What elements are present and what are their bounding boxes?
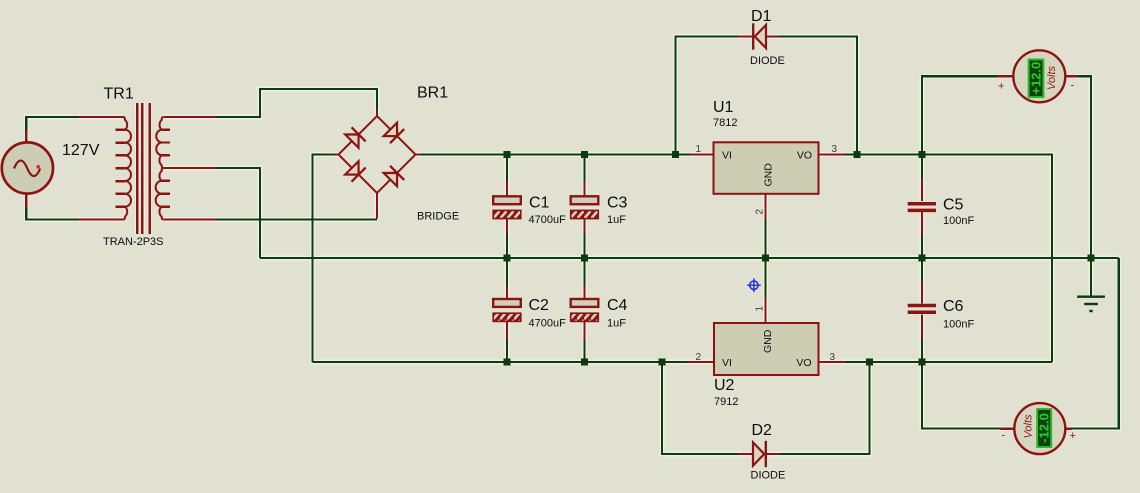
- svg-text:GND: GND: [762, 329, 774, 353]
- node junction D1 riser / U1 VI: [672, 151, 679, 158]
- svg-text:7912: 7912: [714, 396, 738, 408]
- node junction C3 top: [581, 151, 588, 158]
- wire top voltmeter plus riser: [922, 76, 997, 154]
- wire mid rail to U2 GND: [764, 258, 766, 298]
- wire U1 VO rail to x=1052: [845, 155, 1052, 363]
- origin marker (blue crosshair): [747, 278, 761, 292]
- wire ground stub: [1090, 258, 1092, 296]
- wire C2 branch: [506, 258, 508, 362]
- svg-text:7812: 7812: [713, 117, 737, 129]
- node junction C3 bottom: [581, 255, 588, 262]
- capacitor C5 100nF: [908, 179, 936, 235]
- svg-text:U1: U1: [713, 99, 734, 116]
- bridge rectifier BR1 diamond arms: [335, 110, 421, 219]
- svg-text:U2: U2: [714, 377, 735, 394]
- svg-text:4700uF: 4700uF: [529, 318, 567, 330]
- wire bridge left vertex down to negative input rail: [312, 155, 335, 363]
- wire mid rail corner down to bottom voltmeter plus: [1072, 258, 1119, 429]
- node junction ground / meter minus: [1088, 255, 1095, 262]
- wire secondary top to bridge top vertex: [216, 89, 377, 117]
- capacitor C3 1uF electrolytic: [571, 182, 599, 234]
- wire bottom voltmeter minus riser: [922, 362, 1001, 429]
- capacitor C1 4700uF electrolytic: [493, 182, 521, 234]
- capacitor C4 1uF electrolytic: [571, 286, 599, 340]
- node junction C5 bottom / C6 top: [919, 255, 926, 262]
- node junction C6 bottom / bottom meter minus: [919, 359, 926, 366]
- svg-text:Volts: Volts: [1023, 414, 1035, 439]
- svg-text:+12.0: +12.0: [1028, 62, 1043, 95]
- node junction D2 left / U2 VI: [659, 359, 666, 366]
- wire bridge right vertex to U1 VI (positive rail left): [421, 153, 690, 155]
- svg-text:1uF: 1uF: [607, 318, 626, 330]
- JUNCTIONS: [504, 151, 1095, 366]
- node junction C2 bottom: [504, 359, 511, 366]
- regulator U2 7912: [687, 298, 845, 375]
- svg-text:C1: C1: [529, 194, 550, 211]
- node junction C4 bottom: [581, 359, 588, 366]
- svg-text:C3: C3: [607, 194, 628, 211]
- wire C6 branch: [921, 258, 923, 362]
- node junction C1 bottom: [504, 255, 511, 262]
- svg-text:D2: D2: [752, 422, 773, 439]
- svg-text:BRIDGE: BRIDGE: [417, 211, 459, 223]
- svg-text:TRAN-2P3S: TRAN-2P3S: [103, 236, 164, 248]
- transformer TR1 secondary windings with center tap: [156, 117, 216, 220]
- node junction U1 VO / D1: [854, 151, 861, 158]
- svg-text:BR1: BR1: [417, 85, 448, 102]
- svg-text:Volts: Volts: [1046, 65, 1058, 90]
- capacitor C6 100nF: [908, 281, 936, 339]
- svg-text:100nF: 100nF: [943, 215, 974, 227]
- wire secondary center tap down to mid rail: [216, 168, 260, 258]
- wire C1 branch: [506, 155, 508, 259]
- bridge diode bottom-left (anode left vertex, cathode bottom vertex): [345, 161, 358, 174]
- svg-text:TR1: TR1: [104, 86, 134, 103]
- svg-text:DIODE: DIODE: [750, 55, 785, 67]
- svg-text:C4: C4: [607, 297, 628, 314]
- svg-text:C5: C5: [943, 197, 964, 214]
- wire secondary bottom to bridge bottom stub: [216, 218, 377, 220]
- wire U1 GND to mid rail: [764, 220, 766, 258]
- wire mid rail (0V): [260, 257, 1119, 259]
- wire D2 left riser and diode net: [662, 362, 740, 454]
- node junction C1 top: [504, 151, 511, 158]
- diode D1: [739, 23, 780, 49]
- bridge diode top-right (anode top vertex, cathode right vertex): [384, 123, 397, 136]
- svg-text:3: 3: [832, 144, 838, 155]
- wire AC source bottom to transformer primary bottom: [26, 207, 78, 220]
- AC source V1 127V: [2, 129, 53, 207]
- wire negative input rail to U2 VI: [312, 361, 687, 363]
- bridge diode top-left (anode left vertex, cathode top vertex): [345, 134, 358, 147]
- svg-text:C6: C6: [943, 298, 964, 315]
- svg-text:-12.0: -12.0: [1036, 413, 1051, 443]
- svg-text:127V: 127V: [62, 142, 100, 159]
- svg-text:4700uF: 4700uF: [529, 214, 567, 226]
- wire U2 VO rail to x=1052: [845, 361, 1052, 363]
- node junction D2 right / U2 VO: [866, 359, 873, 366]
- svg-text:2: 2: [695, 352, 701, 363]
- wire D2 right side riser to U2 output rail: [779, 362, 870, 454]
- wire AC source top to transformer primary top: [26, 117, 78, 129]
- svg-text:100nF: 100nF: [943, 319, 974, 331]
- diode D2: [739, 441, 780, 467]
- voltmeter bottom -12.0: [1001, 403, 1076, 454]
- svg-text:D1: D1: [751, 8, 772, 25]
- svg-text:VO: VO: [797, 150, 812, 162]
- bridge diode bottom-right (anode bottom vertex, cathode right vertex): [384, 173, 397, 186]
- wire top voltmeter minus riser to mid rail: [1078, 76, 1091, 258]
- svg-text:DIODE: DIODE: [751, 470, 786, 482]
- regulator U1 7812: [690, 142, 845, 220]
- wire D1 left riser and diode net: [676, 37, 741, 155]
- svg-text:1: 1: [755, 306, 766, 312]
- wire C3 branch: [583, 155, 585, 259]
- node junction GND pins: [762, 255, 769, 262]
- svg-text:1: 1: [695, 144, 701, 155]
- svg-text:VI: VI: [722, 150, 732, 162]
- svg-text:VO: VO: [796, 357, 811, 369]
- svg-text:GND: GND: [763, 163, 775, 187]
- transformer TR1 primary winding: [79, 117, 132, 220]
- svg-text:2: 2: [755, 209, 766, 215]
- node junction C5 top / meter plus: [919, 151, 926, 158]
- transformer TR1 core: [137, 103, 150, 234]
- wire D1 right side to U1 output rail: [779, 37, 857, 155]
- svg-text:3: 3: [830, 352, 836, 363]
- svg-text:+: +: [1070, 430, 1076, 442]
- svg-text:+: +: [998, 81, 1004, 93]
- voltmeter top +12.0: [997, 50, 1078, 102]
- svg-text:1uF: 1uF: [607, 214, 626, 226]
- svg-text:-: -: [1002, 430, 1006, 442]
- capacitor C2 4700uF electrolytic: [493, 286, 521, 340]
- svg-text:C2: C2: [529, 297, 550, 314]
- svg-text:VI: VI: [722, 357, 732, 369]
- ground symbol: [1077, 297, 1105, 311]
- svg-text:-: -: [1071, 80, 1075, 92]
- wire C5 branch: [921, 155, 923, 259]
- wire C4 branch: [583, 258, 585, 362]
